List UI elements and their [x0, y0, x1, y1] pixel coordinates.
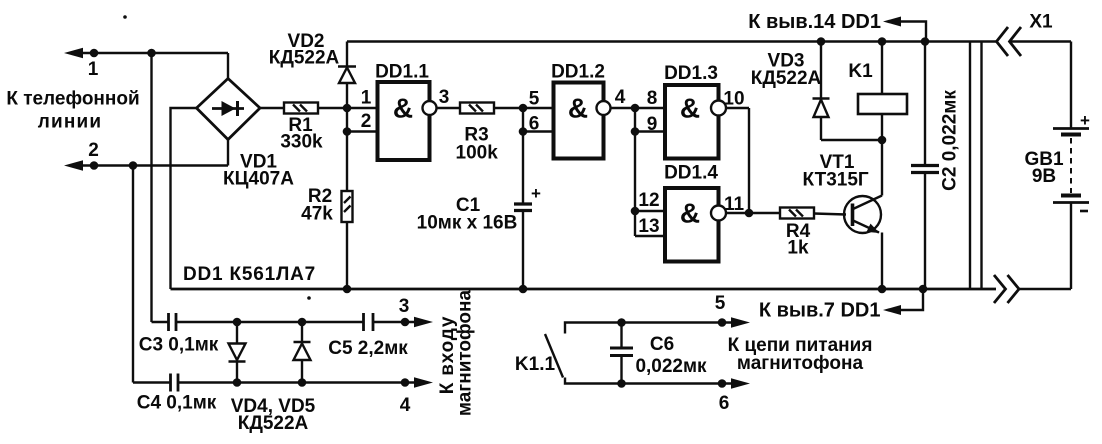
wire top supply rail — [347, 40, 997, 42]
wire node A vertical — [346, 108, 348, 191]
diode VD4 — [229, 322, 246, 383]
pin 6 wire — [523, 130, 554, 132]
wire bridge left to ground rail — [171, 108, 197, 289]
node A dots — [343, 104, 352, 113]
svg-text:C5 2,2мк: C5 2,2мк — [328, 338, 408, 359]
svg-text:C2 0,022мк: C2 0,022мк — [940, 90, 961, 191]
pin 2 wire — [347, 130, 378, 132]
svg-text:100k: 100k — [456, 143, 499, 164]
diode VD2 — [338, 42, 356, 109]
svg-text:КЦ407А: КЦ407А — [223, 169, 294, 190]
node junction line1/C3 branch — [147, 49, 156, 58]
wire pin10 down to pin11 node — [748, 108, 750, 213]
gate DD1.4 — [665, 188, 726, 262]
node C1 junctions — [519, 104, 528, 113]
pin 10 wire — [726, 107, 749, 109]
pin 11 wire — [726, 212, 780, 214]
svg-text:магнитофона: магнитофона — [737, 353, 864, 374]
arrow terminal 6 — [718, 379, 727, 388]
capacitor C6 — [610, 323, 633, 384]
diode bridge VD1 — [197, 79, 261, 140]
svg-text:1: 1 — [88, 59, 99, 80]
gate DD1.1 — [378, 82, 437, 160]
svg-text:0,022мк: 0,022мк — [635, 356, 707, 377]
arrow к выв.14 DD1 — [883, 17, 926, 42]
wire line-1 top lead — [80, 52, 228, 54]
arrow terminal 5 — [718, 318, 727, 327]
arrow terminal 1 — [64, 48, 83, 58]
svg-text:2: 2 — [88, 140, 99, 161]
svg-text:КД522А: КД522А — [269, 48, 340, 69]
diode VD5 — [294, 322, 311, 383]
gate DD1.2 — [554, 83, 611, 159]
arrow к выв.7 DD1 — [883, 289, 923, 315]
svg-text:10мк х 16В: 10мк х 16В — [417, 213, 518, 234]
svg-text:КД522А: КД522А — [751, 68, 822, 89]
svg-text:К выв.7 DD1: К выв.7 DD1 — [759, 300, 881, 322]
connector X1 bottom chevrons — [994, 275, 1006, 303]
wire bridge top vertical — [227, 53, 229, 79]
svg-text:11: 11 — [724, 194, 745, 215]
pin 4 wire — [611, 107, 636, 109]
pin 5 wire — [523, 107, 554, 109]
pin 12 wire — [635, 210, 665, 212]
wire C3 to C5 — [176, 321, 363, 323]
wire R2 to rail — [346, 222, 348, 289]
svg-text:КТ315Г: КТ315Г — [803, 170, 869, 191]
pin 13 wire — [635, 235, 665, 237]
svg-text:К телефонной: К телефонной — [6, 89, 139, 110]
svg-text:КД522А: КД522А — [238, 413, 309, 434]
svg-text:DD1.1: DD1.1 — [375, 62, 429, 83]
switch K1.1 — [545, 323, 733, 384]
svg-text:10: 10 — [723, 89, 744, 110]
node junction line2/C4 branch — [129, 161, 138, 170]
capacitor C1 polarized — [514, 184, 541, 289]
svg-text:К выв.14 DD1: К выв.14 DD1 — [748, 11, 881, 33]
svg-text:4: 4 — [615, 87, 626, 108]
resistor R1 — [284, 103, 318, 114]
svg-text:4: 4 — [400, 395, 411, 416]
capacitor C4 — [171, 374, 179, 392]
svg-text:&: & — [680, 93, 700, 124]
capacitor C5 — [364, 313, 374, 331]
svg-text:6: 6 — [529, 114, 540, 135]
connector X1 double lines — [969, 42, 971, 290]
svg-text:6: 6 — [719, 393, 730, 414]
svg-text:DD1.3: DD1.3 — [664, 63, 718, 84]
svg-text:магнитофона: магнитофона — [455, 290, 476, 417]
svg-text:47k: 47k — [301, 204, 333, 225]
resistor R2 — [342, 191, 353, 222]
svg-text:2: 2 — [361, 111, 372, 132]
wire R4 to base — [814, 214, 846, 215]
svg-text:13: 13 — [638, 216, 659, 237]
svg-text:12: 12 — [638, 190, 659, 211]
svg-text:9В: 9В — [1032, 166, 1056, 187]
svg-text:1k: 1k — [787, 238, 809, 259]
svg-text:&: & — [680, 198, 700, 229]
wire C3 row — [152, 321, 169, 323]
transistor VT1 — [844, 196, 882, 234]
resistor R3 — [460, 103, 494, 114]
wire bottom ground rail — [171, 288, 997, 291]
svg-text:+: + — [1080, 111, 1090, 130]
svg-text:C6: C6 — [650, 334, 674, 355]
wire collector up — [881, 140, 883, 196]
wire C4 to arrow 4 — [178, 381, 416, 383]
svg-text:&: & — [393, 93, 413, 124]
connector X1 top chevrons — [997, 27, 1009, 56]
svg-text:DD1 К561ЛА7: DD1 К561ЛА7 — [183, 264, 316, 285]
resistor R4 — [780, 208, 814, 219]
wire bridge bottom vertical — [227, 140, 229, 166]
svg-text:X1: X1 — [1029, 12, 1053, 33]
diode VD3 — [813, 42, 830, 141]
wire R3 to node — [494, 107, 523, 109]
wire vertical to C3 row — [150, 53, 152, 322]
svg-text:1: 1 — [361, 88, 372, 109]
arrow terminal 2 — [64, 160, 83, 170]
wire VD3 to relay bottom — [821, 139, 882, 141]
wire C4 row — [133, 381, 170, 383]
svg-text:3: 3 — [399, 296, 410, 317]
wire line-2 bottom lead — [80, 164, 228, 166]
svg-text:5: 5 — [529, 89, 540, 110]
pin 1 wire — [347, 107, 378, 109]
wire C5 to arrow 3 — [373, 321, 416, 323]
wire emitter down to rail — [881, 233, 883, 290]
wire R1 to node A — [318, 107, 347, 109]
svg-text:C4 0,1мк: C4 0,1мк — [137, 393, 217, 414]
wire vertical to C4 row — [132, 166, 134, 383]
svg-text:8: 8 — [647, 88, 658, 109]
pin 3 wire — [437, 107, 461, 109]
svg-text:+: + — [531, 184, 541, 203]
speck — [123, 15, 127, 19]
svg-text:3: 3 — [439, 87, 450, 108]
pin 9 wire — [635, 130, 665, 132]
battery GB1 — [1053, 42, 1090, 290]
capacitor C3 — [169, 313, 177, 331]
svg-text:C3 0,1мк: C3 0,1мк — [139, 335, 219, 356]
wire bridge right to R1 — [260, 107, 284, 109]
pin 8 wire — [635, 107, 665, 109]
capacitor C2 — [911, 42, 939, 290]
gate DD1.3 — [665, 85, 726, 159]
svg-text:330k: 330k — [280, 132, 323, 153]
node DD1.2 out junctions — [631, 104, 640, 113]
svg-text:линии: линии — [38, 112, 103, 133]
svg-text:9: 9 — [647, 114, 658, 135]
svg-text:DD1.4: DD1.4 — [664, 163, 718, 184]
relay K1 — [858, 42, 907, 141]
svg-text:DD1.2: DD1.2 — [551, 62, 605, 83]
svg-text:&: & — [568, 93, 588, 124]
svg-text:5: 5 — [715, 293, 726, 314]
svg-text:K1.1: K1.1 — [515, 354, 556, 375]
svg-text:K1: K1 — [848, 61, 873, 82]
